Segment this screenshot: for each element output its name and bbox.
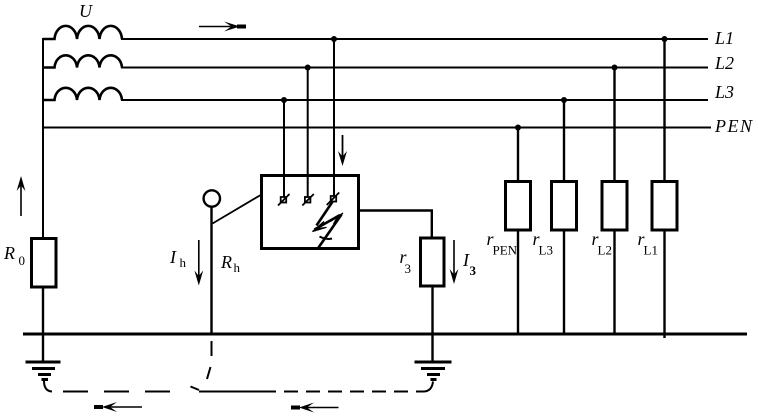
wire: PEN to rPEN (517, 128, 519, 183)
svg-text:L1: L1 (714, 28, 734, 48)
resistor r3 (421, 238, 445, 286)
resistor rL3 (552, 182, 577, 231)
node: L2 tap for box (305, 65, 311, 71)
resistor R0 (32, 239, 57, 288)
svg-text:h: h (180, 255, 187, 270)
svg-text:3: 3 (405, 261, 412, 276)
dashed return path: right section (284, 391, 424, 393)
svg-text:h: h (234, 260, 241, 275)
current arrow Ih (194, 240, 203, 286)
return current arrow left (94, 402, 142, 412)
dashed return path: person leg dashes (191, 341, 212, 390)
terminal 2 (302, 194, 314, 206)
node: PEN tap for rPEN (515, 125, 521, 131)
source winding L3 (43, 88, 122, 100)
svg-text:U: U (79, 1, 93, 21)
svg-text:L3: L3 (539, 243, 553, 258)
source winding L2 (43, 55, 122, 67)
insulation breakdown bolt (313, 201, 344, 249)
wire: L1 drop to box (333, 39, 335, 196)
node: L3 tap for box (281, 97, 287, 103)
person arm to box (213, 195, 262, 224)
svg-text:L2: L2 (714, 53, 734, 73)
wire: L3 drop to box (283, 100, 285, 197)
dashed return path: left section (63, 391, 178, 393)
wire: rL2 to ground line (613, 230, 615, 334)
svg-text:0: 0 (19, 253, 26, 268)
wire: r3 to earth (431, 286, 433, 362)
wire: L1 to rL1 (663, 39, 665, 182)
node: L3 tap for rL3 (561, 97, 567, 103)
dashed return path: solid middle segment (199, 391, 276, 393)
svg-text:PEN: PEN (493, 243, 518, 258)
wire: L1 phase bus (121, 38, 708, 40)
fault current arrow into box (338, 135, 347, 166)
wire: rL1 to ground line (663, 230, 665, 338)
wire: rPEN to ground line (517, 230, 519, 334)
equipment enclosure box (262, 176, 359, 249)
svg-text:PEN: PEN (714, 116, 754, 136)
svg-text:3: 3 (470, 263, 477, 278)
wire: L2 drop to box (307, 68, 309, 198)
wire: rL3 to ground line (563, 230, 565, 334)
svg-text:L2: L2 (598, 243, 612, 258)
node: L1 tap for rL1 (662, 36, 668, 42)
terminal 1 (278, 194, 290, 206)
resistor rL2 (602, 182, 627, 231)
current arrow up beside R0 (17, 176, 26, 216)
svg-text:R: R (3, 243, 15, 263)
current arrow I3 (450, 240, 459, 284)
svg-text:L3: L3 (714, 82, 734, 102)
svg-text:L1: L1 (644, 243, 658, 258)
person head (204, 190, 220, 206)
wire: L2 to rL2 (613, 68, 615, 183)
ground surface line (23, 333, 747, 336)
source winding L1 (43, 26, 122, 39)
resistor rPEN (506, 182, 531, 231)
wire: L3 phase bus (121, 99, 708, 101)
earth electrode under R0 (26, 362, 61, 380)
wire: L3 to rL3 (563, 100, 565, 182)
earth electrode under r3 (415, 362, 452, 380)
wire: PEN bus (43, 127, 711, 129)
dashed return path: hook under left earth (44, 381, 52, 392)
node: L1 tap for box (331, 36, 337, 42)
svg-text:I: I (169, 247, 177, 267)
wire: R0 to earth (42, 287, 44, 362)
person body (210, 207, 212, 334)
svg-text:R: R (220, 252, 232, 272)
wire: L2 phase bus (121, 67, 708, 69)
wire: left bus vertical (42, 38, 44, 239)
terminal 3 (327, 193, 340, 206)
resistor rL1 (652, 182, 677, 231)
wire: box output to r3 (359, 211, 432, 239)
return current arrow middle (291, 403, 339, 413)
current direction arrow on L1 (199, 22, 246, 32)
node: L2 tap for rL2 (612, 65, 618, 71)
dashed return path: hook under right earth (424, 382, 433, 392)
